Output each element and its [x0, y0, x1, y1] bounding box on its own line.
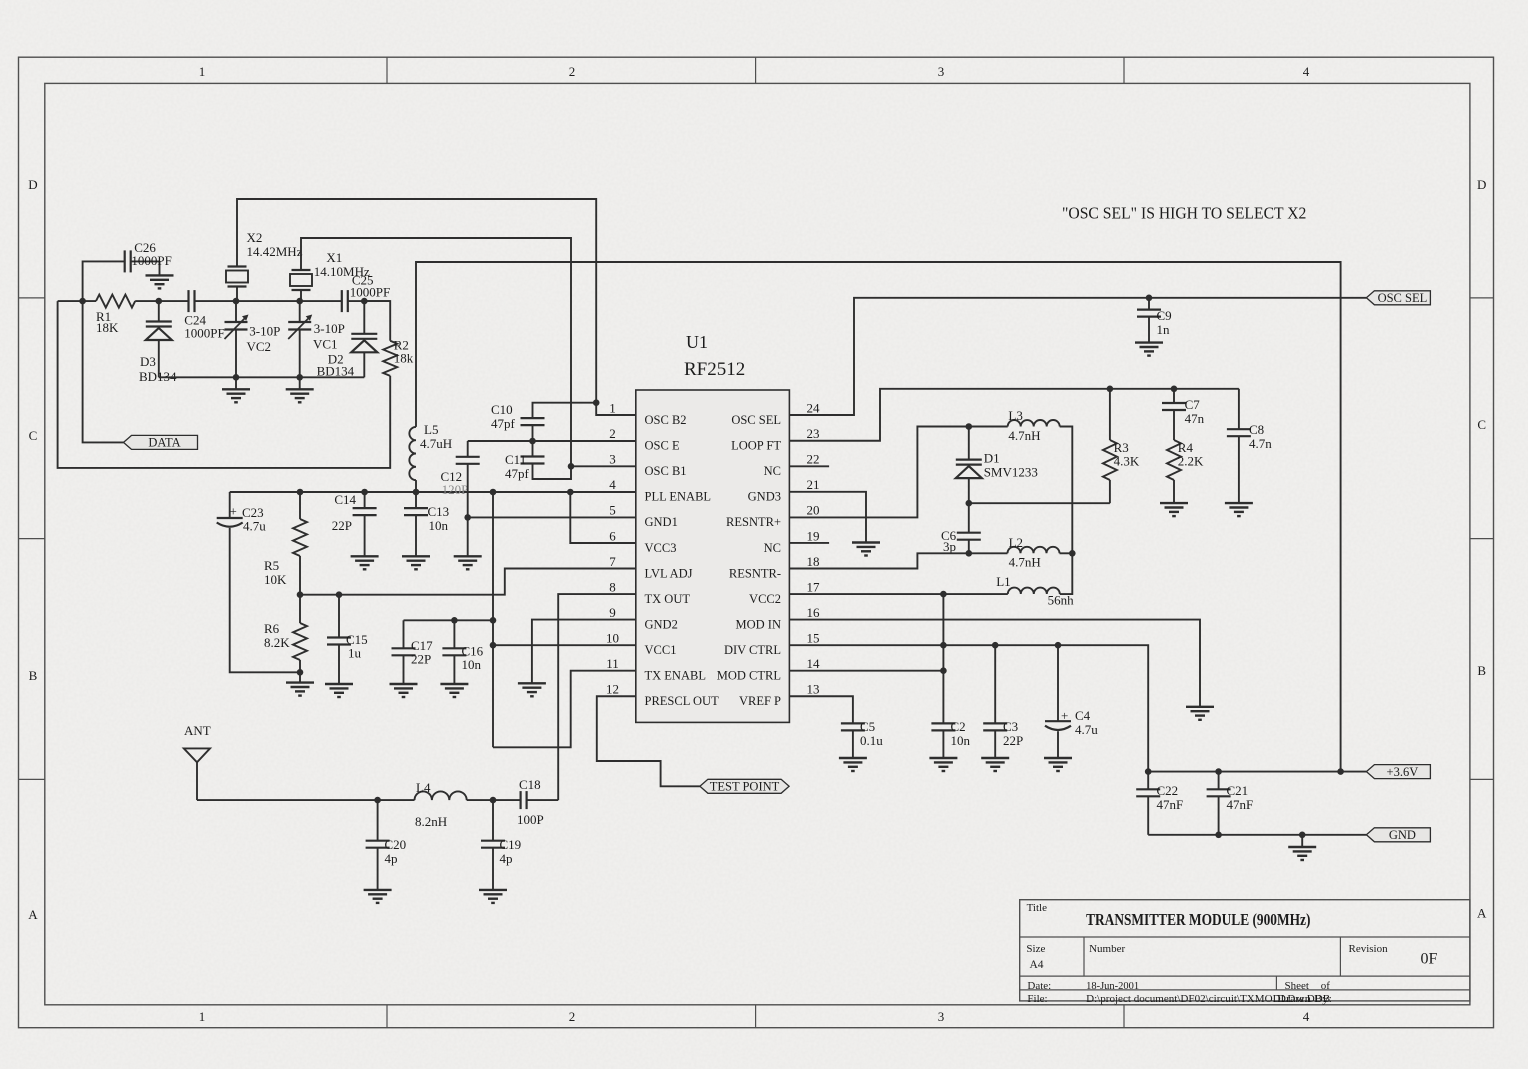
svg-text:C4: C4	[1075, 708, 1091, 723]
svg-text:B: B	[29, 668, 38, 683]
IC U1 RF2512 body	[636, 390, 790, 722]
flag GND	[1366, 828, 1430, 842]
svg-text:Size: Size	[1026, 943, 1045, 955]
svg-text:1000PF: 1000PF	[184, 326, 224, 341]
svg-text:Number: Number	[1089, 943, 1125, 955]
resistor R2 18k	[364, 301, 390, 341]
junction C16 top	[451, 617, 458, 624]
ground below C12	[454, 556, 482, 569]
svg-text:8.2K: 8.2K	[264, 635, 290, 650]
svg-text:RESNTR-: RESNTR-	[729, 566, 781, 580]
svg-text:B: B	[1477, 663, 1486, 678]
junction D3/C24	[156, 298, 163, 305]
svg-text:Title: Title	[1027, 902, 1048, 914]
variable capacitor VC2 3-10P	[235, 301, 237, 322]
svg-text:47nF: 47nF	[1157, 797, 1184, 812]
svg-text:NC: NC	[764, 541, 781, 555]
svg-text:4.7uH: 4.7uH	[420, 436, 452, 451]
svg-text:Sheet: Sheet	[1285, 980, 1309, 992]
ground below R6	[299, 672, 301, 682]
wire RESNTR+ net pin 20 to L3	[789, 427, 1007, 518]
svg-text:C: C	[29, 428, 38, 443]
wire feedback loop R2 bottom to row left end	[58, 301, 391, 468]
ground below C14	[351, 556, 379, 569]
junction VCC1 row	[490, 642, 497, 649]
wire pin 4 row PLL ENABL	[230, 491, 636, 493]
svg-text:NC: NC	[764, 464, 781, 478]
zone ticks top	[386, 57, 388, 83]
wire VREF P net pin 13 to C5	[789, 696, 853, 723]
svg-text:OSC SEL: OSC SEL	[1378, 291, 1428, 305]
flag TEST POINT	[700, 779, 789, 793]
svg-text:10n: 10n	[462, 657, 482, 672]
capacitor C26 1000PF	[125, 250, 131, 272]
junction resonator right	[1069, 550, 1076, 557]
junction GND1 row	[464, 514, 471, 521]
wire L4 right to C18	[467, 799, 521, 801]
svg-text:18-Jun-2001: 18-Jun-2001	[1086, 980, 1139, 992]
svg-text:6: 6	[609, 528, 616, 543]
svg-text:File:: File:	[1027, 993, 1047, 1005]
resistor R1 18K	[96, 295, 135, 308]
svg-text:4.7n: 4.7n	[1249, 436, 1272, 451]
ground below C8	[1225, 503, 1253, 516]
svg-text:VCC1: VCC1	[645, 643, 677, 657]
svg-text:OSC SEL: OSC SEL	[731, 413, 781, 427]
capacitor C15 1u	[338, 595, 340, 638]
zone ticks right	[1470, 297, 1494, 299]
svg-text:47n: 47n	[1185, 411, 1205, 426]
junction C6 bottom on L2 row	[966, 550, 973, 557]
wire NC stub pin 19	[789, 542, 829, 544]
ground below VC1	[299, 377, 301, 389]
svg-text:14: 14	[807, 656, 821, 671]
wire C12 bottom to GND1 row and ground	[467, 464, 469, 557]
wire 3.6V feed line across top	[416, 262, 1341, 772]
svg-text:2: 2	[569, 1009, 576, 1024]
svg-text:C14: C14	[334, 492, 356, 507]
flag DATA	[124, 435, 198, 449]
wire C18 right to TX line	[527, 799, 559, 801]
wire PRESCL OUT net pin 12 to test point	[597, 696, 700, 786]
svg-text:C22: C22	[1157, 783, 1179, 798]
svg-text:VC1: VC1	[313, 337, 338, 352]
wire pin 3 stub	[571, 465, 636, 467]
inductor L3 4.7nH	[1008, 420, 1060, 427]
wire OSC SEL net pin 24	[789, 298, 1366, 415]
junction VC1 bottom	[296, 374, 303, 381]
svg-text:C21: C21	[1227, 783, 1249, 798]
svg-text:+: +	[1061, 708, 1068, 723]
svg-text:BD134: BD134	[317, 364, 355, 379]
junction C19	[490, 797, 497, 804]
svg-text:7: 7	[609, 554, 616, 569]
junction C4 top	[1055, 642, 1062, 649]
inductor L2 4.7nH	[1008, 547, 1060, 554]
capacitor C18 100P	[521, 791, 527, 809]
svg-text:3p: 3p	[943, 539, 956, 554]
svg-text:10: 10	[606, 630, 619, 645]
svg-text:17: 17	[807, 579, 821, 594]
svg-text:4p: 4p	[385, 851, 398, 866]
capacitor C21 47nF	[1218, 772, 1220, 790]
wire vertical net x493	[492, 492, 494, 747]
wire L2 right lead	[1060, 552, 1073, 554]
wire MOD IN row pin 16	[789, 620, 1200, 707]
junction +3.6V/C22	[1145, 768, 1152, 775]
flag +3.6V	[1366, 765, 1430, 779]
diode D3 BD134 varactor	[158, 301, 160, 321]
svg-text:of: of	[1321, 980, 1331, 992]
wire L3 right to resonator vertical	[1060, 427, 1073, 554]
svg-text:PLL ENABL: PLL ENABL	[645, 490, 712, 504]
svg-text:15: 15	[807, 630, 820, 645]
wire VCC2 row pin 17 to L1	[789, 593, 1007, 595]
zone ticks left	[19, 297, 45, 299]
junction feed line on +3.6V	[1337, 768, 1344, 775]
wire GND2 net pin 9	[532, 620, 636, 684]
svg-text:TX ENABL: TX ENABL	[645, 669, 706, 683]
svg-text:14.42MHz: 14.42MHz	[247, 244, 303, 259]
svg-text:L5: L5	[424, 422, 438, 437]
wire C2 vertical	[942, 594, 944, 723]
junction VCC2/C2 vertical	[940, 591, 947, 598]
capacitor C13 10n	[415, 492, 417, 508]
svg-text:56nh: 56nh	[1048, 593, 1075, 608]
capacitor C20 4p	[377, 800, 379, 841]
svg-text:9: 9	[609, 605, 616, 620]
svg-text:MOD CTRL: MOD CTRL	[717, 669, 781, 683]
wire NC stub pin 22	[789, 465, 829, 467]
svg-text:SMV1233: SMV1233	[984, 465, 1038, 480]
capacitor C5 0.1u	[841, 723, 865, 730]
svg-text:2: 2	[609, 426, 616, 441]
crystal X1	[290, 270, 312, 290]
svg-text:L1: L1	[996, 574, 1010, 589]
svg-text:DIV CTRL: DIV CTRL	[724, 643, 781, 657]
junction C25/D2/R2	[361, 298, 368, 305]
svg-text:RESNTR+: RESNTR+	[726, 515, 781, 529]
diode D2 BD134 varactor	[363, 301, 365, 334]
svg-text:47nF: 47nF	[1227, 797, 1254, 812]
zone ticks bottom	[386, 1005, 388, 1028]
svg-text:0F: 0F	[1421, 951, 1438, 968]
junction VCC3 jog	[567, 489, 574, 496]
svg-text:16: 16	[807, 605, 821, 620]
capacitor C17 22P	[403, 620, 405, 648]
ground below GND2	[518, 683, 546, 696]
svg-text:C9: C9	[1157, 308, 1172, 323]
svg-text:12: 12	[606, 682, 619, 697]
ground on GND row	[1301, 835, 1303, 847]
svg-text:VREF P: VREF P	[739, 694, 781, 708]
svg-text:10n: 10n	[951, 733, 971, 748]
svg-text:1n: 1n	[1157, 322, 1171, 337]
junction D1 top	[966, 423, 973, 430]
svg-text:D3: D3	[140, 354, 156, 369]
capacitor C4 4.7u electrolytic	[1057, 645, 1059, 721]
junction C16/C17 row	[490, 617, 497, 624]
antenna ANT	[184, 748, 210, 762]
svg-text:11: 11	[606, 656, 619, 671]
capacitor C10 47pf	[521, 418, 545, 425]
svg-text:C2: C2	[951, 719, 966, 734]
svg-text:TX OUT: TX OUT	[645, 592, 691, 606]
svg-text:C13: C13	[428, 504, 450, 519]
capacitor C7 47n	[1173, 389, 1175, 403]
svg-text:+3.6V: +3.6V	[1387, 765, 1419, 779]
junction pin1/C10/X2	[593, 399, 600, 406]
svg-text:4: 4	[1303, 64, 1310, 79]
svg-text:18: 18	[807, 554, 820, 569]
svg-text:GND: GND	[1389, 828, 1416, 842]
junction C2 on DIV CTRL	[940, 642, 947, 649]
capacitor C3 22P	[994, 645, 996, 723]
svg-text:1: 1	[609, 401, 616, 416]
wire DIV CTRL row pin 15 to +3.6V	[789, 645, 1148, 771]
capacitor C22 47nF	[1147, 772, 1149, 790]
svg-text:+: +	[230, 504, 237, 519]
svg-text:10K: 10K	[264, 572, 287, 587]
svg-text:20: 20	[807, 503, 820, 518]
svg-text:22P: 22P	[332, 518, 352, 533]
svg-text:VC2: VC2	[247, 339, 272, 354]
svg-text:OSC E: OSC E	[645, 439, 680, 453]
wire RESNTR- net pin 18 to L2	[789, 553, 1007, 568]
wire VCC1 row pin 10	[493, 644, 636, 646]
wire L1 right lead up	[1060, 553, 1073, 594]
svg-text:R5: R5	[264, 558, 279, 573]
junction R5/R6/LVL ADJ	[297, 591, 304, 598]
svg-text:2.2K: 2.2K	[1178, 454, 1204, 469]
wire oscillator main row	[58, 300, 96, 302]
ground below C5	[839, 758, 867, 771]
junction C10/C11 on OSC E	[529, 438, 536, 445]
junction C15 top	[336, 591, 343, 598]
svg-text:22P: 22P	[1003, 733, 1023, 748]
wire OSC E row pin 2	[468, 440, 636, 442]
junction C7 top	[1171, 386, 1178, 393]
svg-text:10n: 10n	[429, 518, 449, 533]
svg-text:C11: C11	[505, 452, 526, 467]
junction MOD CTRL end	[940, 667, 947, 674]
svg-text:13: 13	[807, 682, 820, 697]
svg-text:4.7u: 4.7u	[1075, 722, 1098, 737]
inductor L4 8.2nH	[414, 791, 466, 800]
svg-text:5: 5	[609, 503, 616, 518]
title block frame	[1020, 900, 1470, 1001]
wire X1 top net: X1 to pin 3 OSC B1 and C11	[301, 238, 571, 479]
svg-text:C3: C3	[1003, 719, 1018, 734]
svg-text:24: 24	[807, 401, 821, 416]
svg-text:120P: 120P	[442, 482, 469, 497]
ground below VC2	[235, 377, 237, 389]
svg-text:23: 23	[807, 426, 820, 441]
inductor L1 56nh	[1008, 588, 1060, 595]
junction C3 top	[992, 642, 999, 649]
svg-text:3: 3	[609, 452, 616, 467]
junction C14 top	[361, 489, 368, 496]
svg-text:100P: 100P	[517, 812, 544, 827]
svg-text:VCC3: VCC3	[645, 541, 677, 555]
svg-text:MOD IN: MOD IN	[736, 617, 781, 631]
junction C9 top	[1146, 295, 1153, 302]
junction vertical feed	[490, 489, 497, 496]
svg-text:21: 21	[807, 477, 820, 492]
wire C17/C16 top row	[404, 619, 494, 621]
wire GND1 row pin 5	[468, 516, 636, 518]
svg-text:4.7u: 4.7u	[243, 519, 266, 534]
wire D1 bottom rail to R3	[969, 502, 1110, 504]
junction R5 top	[297, 489, 304, 496]
ground below C4	[1044, 758, 1072, 771]
svg-text:VCC2: VCC2	[749, 592, 781, 606]
junction C26/DATA branch	[79, 298, 86, 305]
svg-text:1000PF: 1000PF	[350, 285, 390, 300]
ground below C16	[440, 684, 468, 697]
capacitor C8 4.7n	[1238, 389, 1240, 429]
svg-text:0.1u: 0.1u	[860, 733, 883, 748]
svg-text:L2: L2	[1009, 535, 1023, 550]
svg-text:C5: C5	[860, 719, 875, 734]
svg-text:4.7nH: 4.7nH	[1009, 555, 1041, 570]
svg-text:18k: 18k	[394, 351, 414, 366]
junction pin3 on X1 net	[568, 463, 575, 470]
junction C20	[374, 797, 381, 804]
wire DATA branch	[83, 301, 124, 442]
svg-text:1u: 1u	[348, 646, 362, 661]
ground below C19	[479, 890, 507, 903]
junction X1/VC1	[296, 298, 303, 305]
resistor R4 2.2K	[1173, 410, 1175, 440]
ground below C2	[929, 758, 957, 771]
svg-text:4.3K: 4.3K	[1114, 454, 1140, 469]
wire L5 bottom lead	[415, 480, 417, 492]
ground below C15	[325, 684, 353, 697]
capacitor C2 10n	[931, 723, 955, 730]
svg-text:C20: C20	[385, 837, 407, 852]
variable capacitor VC1 3-10P	[299, 301, 301, 322]
capacitor C16 10n	[453, 620, 455, 648]
svg-text:3-10P: 3-10P	[314, 321, 345, 336]
wire X2 bottom lead	[236, 287, 238, 302]
svg-text:8: 8	[609, 579, 616, 594]
ground below C17	[390, 684, 418, 697]
ground below C3	[981, 758, 1009, 771]
resistor R6 8.2K	[299, 595, 301, 623]
svg-text:LVL ADJ: LVL ADJ	[645, 566, 693, 580]
capacitor C6 3p	[968, 503, 970, 533]
wire MOD CTRL row pin 14	[789, 670, 943, 672]
junction ground stem on GND row	[1299, 832, 1306, 839]
capacitor C25 1000PF	[342, 290, 348, 312]
ground below C26	[146, 275, 174, 288]
wire +3.6V row	[1148, 771, 1366, 773]
svg-text:2: 2	[569, 64, 576, 79]
svg-text:19: 19	[807, 528, 820, 543]
diode D1 SMV1233 varactor	[968, 427, 970, 460]
wire TX OUT net pin 8 down to antenna row	[558, 594, 636, 800]
junction R6 bottom / C23	[297, 669, 304, 676]
capacitor C9 1n	[1148, 298, 1150, 310]
svg-text:"OSC SEL" IS HIGH TO SELECT X2: "OSC SEL" IS HIGH TO SELECT X2	[1062, 204, 1306, 223]
svg-text:47pf: 47pf	[491, 416, 516, 431]
inductor L5 4.7uH	[409, 427, 416, 480]
ground below R4	[1160, 503, 1188, 516]
junction X2/VC2	[233, 298, 240, 305]
svg-text:1: 1	[199, 1009, 206, 1024]
junction L5/C13	[413, 489, 420, 496]
flag OSC SEL	[1366, 291, 1430, 305]
svg-text:4: 4	[1303, 1009, 1310, 1024]
svg-text:ANT: ANT	[184, 723, 211, 738]
wire antenna row	[197, 799, 415, 801]
svg-text:A: A	[28, 907, 38, 922]
capacitor C12 120P	[467, 441, 469, 457]
svg-text:L4: L4	[416, 780, 431, 795]
wire antenna lead	[196, 762, 198, 800]
capacitor C11 47pf	[532, 441, 534, 457]
wire VCC3 jog pin 6	[570, 492, 636, 543]
wire C26 branch	[83, 261, 125, 301]
svg-text:18K: 18K	[96, 320, 119, 335]
svg-text:C19: C19	[500, 837, 522, 852]
svg-text:L3: L3	[1008, 408, 1022, 423]
junction VC2 bottom	[233, 374, 240, 381]
capacitor C19 4p	[492, 800, 494, 841]
wire GND3 net pin 21	[789, 492, 866, 543]
junction C21 bottom	[1215, 832, 1222, 839]
svg-text:47pf: 47pf	[505, 466, 530, 481]
svg-text:OSC B2: OSC B2	[645, 413, 687, 427]
svg-text:A4: A4	[1030, 959, 1044, 971]
svg-text:8.2nH: 8.2nH	[415, 814, 447, 829]
svg-text:Date:: Date:	[1027, 980, 1051, 992]
svg-text:1000PF: 1000PF	[131, 253, 171, 268]
svg-text:C: C	[1477, 417, 1486, 432]
wire LOOP FT net pin 23 to RC rail	[789, 389, 1239, 441]
capacitor C23 4.7u electrolytic	[229, 492, 231, 518]
ground below MOD IN	[1186, 707, 1214, 720]
svg-text:GND1: GND1	[645, 515, 678, 529]
svg-text:4p: 4p	[500, 851, 513, 866]
svg-text:4.7nH: 4.7nH	[1008, 428, 1040, 443]
svg-text:4: 4	[609, 477, 616, 492]
wire GND row	[1148, 834, 1366, 836]
svg-text:PRESCL OUT: PRESCL OUT	[645, 694, 720, 708]
capacitor C24 1000PF	[189, 290, 195, 312]
svg-text:OSC B1: OSC B1	[645, 464, 687, 478]
svg-text:22: 22	[807, 452, 820, 467]
svg-text:22P: 22P	[411, 652, 431, 667]
svg-text:LOOP FT: LOOP FT	[731, 439, 781, 453]
svg-text:C10: C10	[491, 402, 513, 417]
svg-text:D: D	[28, 177, 37, 192]
capacitor C14 22P	[364, 492, 366, 508]
svg-text:C8: C8	[1249, 422, 1264, 437]
ground below C13	[402, 556, 430, 569]
svg-text:X2: X2	[247, 230, 263, 245]
wire LVL ADJ row pin 7	[300, 569, 636, 595]
junction C21 top	[1215, 768, 1222, 775]
svg-text:X1: X1	[326, 250, 342, 265]
svg-text:RF2512: RF2512	[684, 359, 745, 380]
crystal X2	[226, 267, 248, 287]
svg-text:3: 3	[938, 64, 945, 79]
wire X1 bottom lead	[300, 290, 302, 301]
svg-text:Drawn By:: Drawn By:	[1277, 993, 1332, 1005]
svg-text:3: 3	[938, 1009, 945, 1024]
